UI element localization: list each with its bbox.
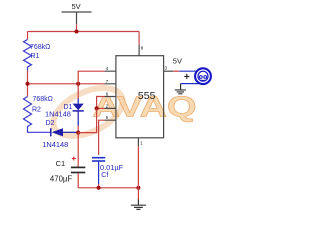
wire OUT segment — [173, 70, 179, 72]
watermark AVAQ — [93, 91, 197, 124]
wire CON to Cf — [99, 120, 105, 155]
wire VCC pin8 drop — [138, 32, 140, 45]
svg-text:1N4148: 1N4148 — [42, 140, 68, 149]
svg-text:5V: 5V — [173, 57, 182, 66]
svg-text:768kΩ: 768kΩ — [33, 96, 53, 103]
wire R1 to DIS node — [27, 71, 29, 97]
diode D1 — [45, 84, 84, 133]
diode D2 — [42, 120, 78, 149]
ground bottom — [131, 200, 146, 210]
node THR/TRI junction — [95, 106, 99, 110]
wire bottom rail — [78, 187, 138, 189]
capacitor C1 — [50, 133, 85, 188]
wire DIS horizontal — [28, 83, 105, 85]
svg-text:5V: 5V — [72, 2, 81, 11]
pin stubs left — [105, 71, 116, 120]
node DIS/D1 junction — [76, 82, 80, 86]
pin stub right — [164, 70, 174, 72]
wire GND drop — [137, 146, 139, 200]
5V power symbol top — [62, 2, 92, 32]
svg-text:D2: D2 — [46, 120, 55, 127]
resistor R1 — [24, 32, 51, 71]
node R1/R2 junction — [26, 82, 30, 86]
svg-text:768kΩ: 768kΩ — [30, 44, 50, 51]
node Cf/rail junction — [97, 186, 101, 190]
watermark swirl — [46, 78, 130, 146]
svg-text:Cf: Cf — [101, 172, 108, 179]
resistor R2 — [24, 96, 53, 132]
svg-text:R1: R1 — [31, 53, 40, 60]
wire RST loop — [78, 71, 104, 84]
ground right — [175, 84, 186, 94]
buzzer LS1 — [179, 68, 211, 84]
wire top rail — [28, 31, 140, 33]
svg-text:470µF: 470µF — [50, 175, 73, 184]
node top rail junction — [75, 30, 79, 34]
wire TRI horizontal — [97, 107, 105, 109]
wire THR loop — [97, 97, 105, 109]
plus sign — [184, 74, 189, 79]
IC U1 555 timer body — [116, 56, 164, 138]
svg-text:555: 555 — [138, 90, 156, 102]
wire TRI to node X — [78, 108, 96, 132]
pin stub top — [138, 45, 140, 56]
svg-text:C1: C1 — [56, 159, 66, 168]
svg-text:0.01µF: 0.01µF — [100, 163, 124, 172]
svg-text:1N4148: 1N4148 — [45, 110, 71, 119]
svg-text:R2: R2 — [32, 106, 41, 113]
pin stub bottom — [137, 138, 139, 146]
node rail/ground junction — [136, 186, 140, 190]
node X junction (D1/D2/C1/TRI) — [76, 131, 80, 135]
capacitor Cf — [92, 158, 124, 188]
